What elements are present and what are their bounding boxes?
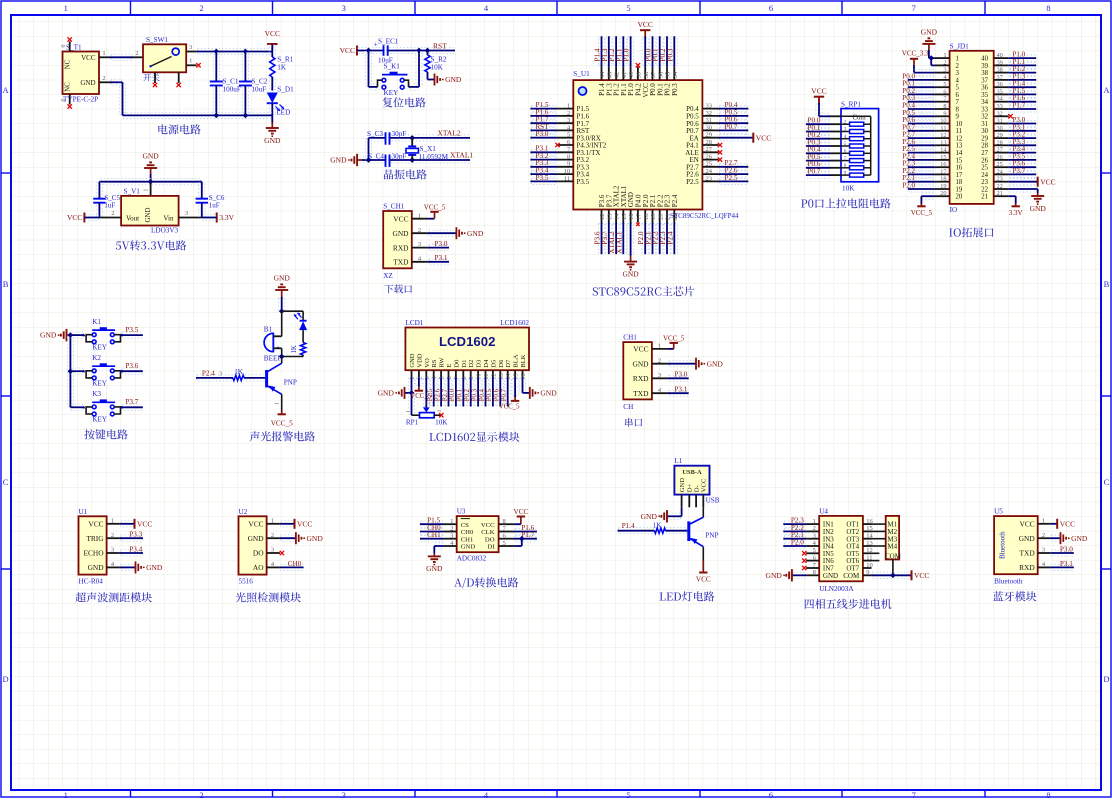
svg-text:22: 22 [672, 214, 679, 221]
svg-text:S_C2: S_C2 [251, 78, 267, 86]
svg-text:VCC: VCC [756, 133, 771, 142]
svg-text:GND: GND [622, 269, 639, 278]
svg-text:P3.4: P3.4 [129, 545, 142, 553]
wire to LED branch [282, 310, 303, 312]
svg-text:L1: L1 [674, 457, 682, 465]
svg-text:D6: D6 [498, 359, 505, 368]
wire XTAL1 [363, 157, 469, 163]
svg-text:P0.1: P0.1 [457, 389, 464, 401]
svg-text:S_RP1: S_RP1 [841, 100, 861, 108]
svg-text:ULN2003A: ULN2003A [819, 585, 854, 593]
LCD pin 10 D3 [477, 370, 479, 377]
wire and net label P0.2 [909, 91, 934, 97]
LED D2 [300, 320, 307, 322]
wire and net label P0.0 [649, 37, 655, 66]
svg-text:VCC_3.3: VCC_3.3 [902, 50, 929, 58]
wire and net label P3.2 [1010, 135, 1035, 141]
svg-text:S_C1: S_C1 [223, 78, 239, 86]
svg-text:STC89C52RC_LQFP44: STC89C52RC_LQFP44 [670, 212, 739, 220]
capacitor S_C5 1uF [96, 183, 102, 198]
svg-text:1: 1 [450, 518, 453, 525]
svg-text:GND: GND [307, 534, 324, 543]
svg-text:7: 7 [912, 790, 916, 798]
title reset circuit [383, 97, 426, 107]
svg-text:S_C5: S_C5 [104, 194, 120, 202]
svg-text:P3.6: P3.6 [125, 362, 138, 370]
svg-text:25: 25 [706, 161, 713, 168]
svg-text:D2: D2 [468, 360, 475, 368]
wire and net label P0.4 [482, 379, 488, 406]
svg-text:S_R1: S_R1 [277, 55, 293, 63]
svg-text:8: 8 [1046, 3, 1050, 13]
svg-text:38: 38 [997, 67, 1003, 74]
base resistor 1K and net label P1.4 [619, 528, 654, 534]
L1 pin D+ [688, 495, 690, 508]
MCU U1 STC89C52RC LQFP44 body [573, 80, 702, 209]
ground GND reset [428, 79, 435, 81]
svg-text:11: 11 [956, 128, 963, 135]
wire VCC rail top [198, 48, 272, 54]
title MCU [593, 286, 695, 296]
svg-text:1: 1 [1042, 517, 1045, 524]
wire and net label P2.7 [909, 135, 934, 141]
wire and net label P2.1 [649, 224, 655, 254]
regulator S_V1 LDO3V3 [150, 182, 152, 196]
svg-text:VCC: VCC [1040, 177, 1055, 186]
svg-text:U5: U5 [994, 508, 1003, 516]
MCU top pin 36 P0.1 [659, 67, 661, 80]
ground GND alarm [275, 289, 288, 291]
wire and net label P1.6 [531, 113, 556, 119]
module U2 5516 body [239, 516, 267, 574]
wire and net label P2.3 [784, 521, 805, 527]
svg-text:17: 17 [940, 168, 946, 175]
U3 pin6 net label P1.7 [515, 536, 536, 542]
svg-text:17: 17 [956, 172, 963, 179]
svg-text:8: 8 [503, 518, 506, 525]
title download port [384, 284, 412, 293]
svg-text:TXD: TXD [1019, 549, 1035, 558]
svg-text:D0: D0 [453, 360, 460, 368]
MCU bottom pin 13 P3.7 [608, 210, 610, 223]
svg-text:3: 3 [271, 547, 274, 554]
svg-text:VCC_5: VCC_5 [410, 393, 431, 400]
svg-text:USB-A: USB-A [682, 469, 702, 476]
svg-text:19: 19 [940, 183, 946, 190]
LCD pin 1 GND [411, 370, 413, 377]
svg-text:VCC: VCC [811, 87, 826, 96]
svg-text:PNP: PNP [284, 378, 297, 386]
svg-text:1: 1 [275, 402, 281, 405]
MCU right pin 28 P4.1 [702, 144, 718, 146]
svg-text:VCC: VCC [1019, 520, 1034, 529]
svg-text:30: 30 [997, 125, 1003, 132]
svg-text:3: 3 [418, 241, 421, 248]
svg-text:GND: GND [540, 389, 557, 398]
svg-text:P3.5: P3.5 [125, 326, 138, 334]
svg-text:34: 34 [672, 71, 679, 78]
net label P3.0 on serial pin3 [669, 375, 688, 381]
svg-text:VCC_5: VCC_5 [424, 203, 446, 211]
svg-text:18: 18 [956, 179, 963, 186]
svg-text:34: 34 [981, 99, 988, 106]
no-connect [718, 143, 722, 147]
RP1 resistor element P0.1 [807, 128, 829, 134]
svg-text:2: 2 [425, 402, 431, 405]
svg-text:D: D [3, 674, 9, 684]
svg-text:DO: DO [485, 536, 495, 543]
svg-text:27: 27 [981, 150, 988, 157]
svg-text:GND: GND [145, 208, 152, 223]
MCU left pin 6 P4.3/INT2 [557, 144, 573, 146]
svg-text:S_C6: S_C6 [209, 194, 225, 202]
svg-text:VCC: VCC [637, 20, 652, 29]
net label P3.1 on pin4 [429, 259, 448, 265]
svg-text:1: 1 [144, 188, 150, 191]
svg-text:GND: GND [378, 389, 395, 398]
svg-text:3: 3 [342, 3, 346, 13]
svg-text:30: 30 [981, 128, 988, 135]
JD1 left pin 4 [935, 79, 950, 81]
svg-text:KEY: KEY [92, 416, 108, 424]
svg-text:COM: COM [885, 552, 902, 560]
svg-text:XTAL2: XTAL2 [438, 128, 461, 137]
svg-text:16: 16 [940, 161, 946, 168]
title 5V to 3.3V circuit [116, 240, 186, 250]
MCU right pin 30 P0.7 [702, 129, 718, 131]
svg-text:AO: AO [253, 563, 264, 572]
wire and net label P3.7 [1010, 171, 1035, 177]
JD1 right pin 24 [994, 173, 1009, 175]
svg-text:VDD: VDD [416, 353, 423, 367]
wire and net label P0.0 [453, 379, 459, 406]
svg-text:34: 34 [997, 96, 1004, 103]
wire and net label P1.5 [1010, 91, 1035, 97]
JD1 left pin 9 [935, 115, 950, 117]
wire right branch to switch [416, 52, 422, 86]
svg-text:5516: 5516 [239, 578, 254, 586]
title P0 pull-up [801, 198, 891, 208]
svg-text:GND: GND [40, 331, 57, 340]
wire and net label P0.6 [909, 120, 934, 126]
svg-text:2: 2 [567, 110, 570, 117]
svg-text:5: 5 [503, 540, 506, 547]
JD1 right pin 35 [994, 93, 1009, 95]
svg-text:S_V1: S_V1 [124, 188, 141, 196]
power port VCC [267, 43, 277, 45]
svg-text:13: 13 [956, 143, 963, 150]
no-connect [718, 150, 722, 154]
svg-text:15: 15 [940, 154, 946, 161]
svg-text:35: 35 [997, 88, 1003, 95]
svg-text:22: 22 [981, 186, 988, 193]
wire left vertical [365, 139, 371, 159]
svg-text:11: 11 [940, 125, 946, 132]
svg-text:10: 10 [564, 168, 571, 175]
svg-text:1: 1 [64, 790, 68, 798]
no-connect [636, 223, 639, 226]
svg-text:16: 16 [628, 213, 635, 220]
JD1 right pin 37 [994, 79, 1009, 81]
svg-text:2: 2 [199, 3, 203, 13]
svg-text:GND: GND [921, 28, 938, 37]
U1 pin3 net label P3.4 [121, 550, 142, 556]
svg-text:1K: 1K [277, 63, 287, 71]
svg-text:23: 23 [997, 176, 1003, 183]
svg-text:P3.0: P3.0 [1060, 545, 1073, 553]
svg-text:S_C4: S_C4 [368, 152, 384, 160]
svg-text:31: 31 [997, 118, 1003, 125]
svg-text:44: 44 [599, 71, 606, 78]
L1 pin D- [695, 495, 697, 508]
svg-text:P0.6: P0.6 [494, 388, 501, 401]
wire and net label P0.1 [909, 84, 934, 90]
wire and net label P2.2 [657, 224, 663, 254]
svg-text:3: 3 [424, 376, 431, 379]
MCU bottom pin 22 P2.4 [673, 210, 675, 223]
svg-text:9: 9 [866, 569, 869, 576]
RP1 resistor element P0.6 [807, 165, 829, 171]
U1 pin1 to VCC [121, 521, 134, 527]
connector S_JD1 40-pin body [950, 51, 994, 204]
svg-text:22: 22 [997, 183, 1003, 190]
net label P3.1 on serial pin4 [669, 390, 688, 396]
motor COM pin wire [892, 560, 894, 576]
svg-text:21: 21 [665, 214, 672, 221]
svg-text:41: 41 [621, 72, 628, 79]
MCU bottom pin 14 XTAL2 [615, 210, 617, 223]
svg-text:P0.3: P0.3 [666, 48, 674, 61]
svg-text:6: 6 [956, 92, 960, 99]
MCU left pin 8 P3.2 [557, 159, 573, 161]
svg-text:RP1: RP1 [406, 418, 419, 426]
LCD pin 4 RS [433, 370, 435, 377]
svg-text:8: 8 [956, 106, 960, 113]
svg-text:33: 33 [981, 106, 988, 113]
wire K3 to net label P3.7 [122, 404, 141, 410]
svg-text:30: 30 [706, 124, 713, 131]
svg-text:D-: D- [694, 485, 701, 492]
svg-text:VCC: VCC [340, 46, 355, 55]
svg-text:TRIG: TRIG [86, 534, 104, 543]
svg-text:3: 3 [185, 210, 188, 217]
svg-text:P0.3: P0.3 [471, 388, 478, 401]
svg-text:Bluetooth: Bluetooth [994, 577, 1023, 585]
RP1 resistor element P0.2 [807, 136, 829, 142]
svg-text:36: 36 [997, 81, 1003, 88]
MCU right pin 32 P0.5 [702, 115, 718, 117]
svg-text:K1: K1 [92, 318, 101, 326]
svg-text:5: 5 [813, 547, 816, 554]
U3 pin8 to VCC [514, 523, 521, 525]
svg-text:1: 1 [418, 212, 421, 219]
JD1 left pin 18 [935, 181, 950, 183]
JD1 left pin 6 [935, 93, 950, 95]
wire and net label P1.1 [620, 37, 626, 66]
no-connect [636, 63, 640, 67]
wire and net label P0.6 [497, 379, 503, 406]
transistor Q2 PNP [687, 521, 690, 541]
svg-text:GND: GND [1030, 204, 1047, 213]
wire to K3 [71, 404, 82, 410]
wire and net label P0.7 [505, 379, 511, 406]
shield pin 0 top of S_T1 [69, 42, 71, 52]
svg-text:2: 2 [271, 532, 274, 539]
wire and net label RST [531, 127, 556, 133]
junction [148, 179, 154, 185]
svg-text:P2.4: P2.4 [671, 194, 679, 207]
svg-text:3: 3 [111, 547, 114, 554]
JD1 left pin 10 [935, 123, 950, 125]
svg-text:VCC: VCC [701, 478, 708, 492]
svg-text:P3.5: P3.5 [577, 178, 590, 186]
LCD pin 14 D7 [507, 370, 509, 377]
wire and net label P3.1 [1010, 128, 1035, 134]
LCD pin 16 BLK [522, 370, 524, 377]
MCU top pin 39 P4.2 [637, 67, 639, 80]
svg-text:1: 1 [406, 410, 412, 413]
JD1 right pin 21 [994, 195, 1009, 197]
ADC U3 ADC0832 body [457, 516, 499, 552]
wire and net label P2.3 [909, 164, 934, 170]
JD1 right pin 38 [994, 72, 1009, 74]
JD1 left pin 20 [935, 195, 950, 197]
transistor Q1 PNP [265, 370, 268, 387]
svg-text:ECHO: ECHO [83, 549, 104, 558]
svg-text:VO: VO [424, 358, 431, 368]
wire and net label P1.2 [1010, 70, 1035, 76]
JD1 right pin 31 [994, 123, 1009, 125]
capacitor S_C1 100uF [213, 53, 219, 81]
svg-text:S_C3: S_C3 [367, 130, 383, 138]
svg-text:6: 6 [943, 88, 946, 95]
svg-text:VCC: VCC [393, 214, 408, 223]
pin 1 of S_T1 [99, 56, 110, 58]
svg-text:ADC0832: ADC0832 [457, 555, 487, 563]
svg-text:Vin: Vin [163, 215, 174, 223]
svg-text:NC: NC [65, 82, 72, 92]
wire and net label P3.1 [531, 149, 556, 155]
LCD VDD pin2 to VCC_5 [416, 379, 422, 386]
wire and net label P2.5 [909, 150, 934, 156]
U2 pin4 net label CH0 [281, 564, 303, 570]
bottom pins of S_SW1 no-connect [154, 72, 156, 83]
ground GND [271, 115, 273, 122]
wire and net label P3.4 [1010, 150, 1035, 156]
wire K1 to net label P3.5 [122, 332, 141, 338]
wire and net label P1.5 [531, 106, 556, 112]
wire EA to VCC [720, 135, 753, 141]
svg-text:U4: U4 [819, 507, 828, 515]
svg-text:S_T1: S_T1 [66, 44, 82, 52]
LCD pin 15 BLA [514, 370, 516, 377]
svg-text:VCC_5: VCC_5 [499, 403, 520, 410]
svg-text:32: 32 [706, 110, 713, 117]
ground GND top [144, 167, 157, 169]
svg-text:S_EC1: S_EC1 [378, 38, 399, 46]
wire bottom join [282, 356, 303, 358]
svg-text:6: 6 [446, 376, 453, 379]
svg-text:P0.3: P0.3 [671, 83, 679, 96]
JD1 left pin 13 [935, 144, 950, 146]
power port VCC to JD1 pin 23 [1010, 179, 1037, 185]
JD1 right pin 40 [994, 57, 1009, 59]
wire and net label XTAL1 [620, 224, 626, 254]
JD1 right pin 23 [994, 181, 1009, 183]
resistor R 1K vertical [302, 330, 304, 342]
no-connect [555, 143, 559, 147]
emitter wire to VCC [702, 547, 704, 561]
svg-text:39: 39 [981, 63, 988, 70]
JD1 right pin 30 [994, 130, 1009, 132]
wire and net label P3.7 [606, 224, 612, 254]
motor wire M3 [872, 538, 886, 540]
svg-text:36: 36 [657, 71, 664, 78]
svg-text:1uF: 1uF [209, 202, 220, 210]
MCU top pin 44 P1.4 [601, 67, 603, 80]
wire and net label P2.7 [720, 164, 748, 170]
wire and net label P3.0 [1010, 120, 1035, 126]
RP1 resistor element P0.0 [807, 121, 829, 127]
svg-text:B: B [3, 279, 9, 289]
svg-text:10K: 10K [435, 418, 448, 426]
svg-text:VCC: VCC [297, 519, 312, 528]
U1 pin4 to GND [121, 564, 135, 570]
svg-text:5: 5 [439, 376, 446, 379]
U1 pin2 net label P3.3 [121, 535, 142, 541]
wire and net label P2.0 [909, 186, 934, 192]
MCU right pin 25 P2.7 [702, 166, 718, 168]
svg-text:D: D [1103, 674, 1109, 684]
svg-text:35: 35 [981, 92, 988, 99]
U4 GND pin8 to ground [793, 572, 805, 578]
net label P3.0 on pin3 [429, 245, 448, 251]
wire trunk [67, 336, 73, 406]
wire top rail [100, 179, 200, 185]
svg-text:P3.0: P3.0 [536, 130, 549, 138]
svg-text:GND: GND [392, 229, 409, 238]
wire and net label P0.4 [909, 106, 934, 112]
svg-text:21: 21 [981, 194, 988, 201]
svg-text:40: 40 [981, 56, 988, 63]
MCU bottom pin 21 P2.3 [666, 210, 668, 223]
svg-text:VCC: VCC [137, 519, 152, 528]
svg-text:GND: GND [445, 75, 462, 84]
svg-text:A: A [1103, 85, 1110, 95]
U3 pin5 DI tied to DO [514, 545, 522, 547]
svg-text:1: 1 [813, 518, 816, 525]
buzzer pin 1 [273, 335, 281, 337]
svg-text:3: 3 [943, 67, 946, 74]
wire and net label P1.0 [1010, 55, 1035, 61]
svg-text:9: 9 [567, 161, 570, 168]
svg-text:14: 14 [940, 147, 947, 154]
svg-text:S_JD1: S_JD1 [950, 42, 970, 50]
svg-text:2: 2 [416, 376, 423, 379]
svg-text:38: 38 [981, 70, 988, 77]
wire and net label P1.3 [606, 37, 612, 66]
wire and net label P3.6 [1010, 164, 1035, 170]
svg-text:5: 5 [567, 132, 570, 139]
svg-text:8: 8 [461, 376, 468, 379]
U4 COM pin9 wire to VCC [873, 572, 911, 578]
svg-text:DO: DO [253, 549, 264, 558]
capacitor S_C4 30pF [386, 155, 388, 165]
svg-text:24: 24 [981, 172, 988, 179]
svg-text:10: 10 [940, 118, 946, 125]
svg-text:10K: 10K [431, 64, 444, 72]
wire and net label P0.1 [657, 37, 663, 66]
